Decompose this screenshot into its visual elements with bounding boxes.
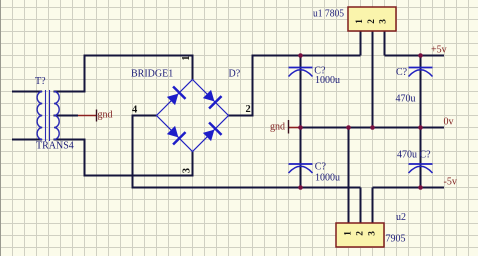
wire -5v output rail <box>373 187 445 189</box>
wire u1 pin3 <box>384 31 386 56</box>
svg-text:2: 2 <box>356 231 366 236</box>
junction +5v out rail / C3 <box>418 53 423 58</box>
svg-text:C?: C? <box>420 150 432 161</box>
svg-text:gnd: gnd <box>270 122 285 133</box>
wire bridge pin2 to +5v input rail <box>229 56 361 116</box>
svg-text:470u: 470u <box>396 94 416 105</box>
wire cap C1 branch <box>300 56 302 128</box>
transformer T? <box>37 90 59 141</box>
wire secondary bottom to bridge pin3 <box>54 140 193 176</box>
svg-text:TRANS4: TRANS4 <box>36 141 74 152</box>
svg-text:1: 1 <box>344 231 354 236</box>
svg-text:gnd: gnd <box>98 110 113 121</box>
svg-text:1000u: 1000u <box>315 173 340 184</box>
wire primary top <box>12 91 42 93</box>
bridge BRIDGE1 diamond <box>157 80 229 152</box>
svg-text:BRIDGE1: BRIDGE1 <box>131 69 173 80</box>
wire cap C3 branch <box>420 56 422 128</box>
svg-text:u1 7805: u1 7805 <box>313 9 344 20</box>
svg-text:+5v: +5v <box>431 45 447 56</box>
wire +5v output rail <box>385 55 445 57</box>
power port gnd (0v rail) <box>289 127 301 129</box>
wire secondary top to bridge pin1 <box>54 56 193 92</box>
wire cap C2 branch <box>300 128 302 188</box>
wire u2 pin3 <box>372 188 374 224</box>
wire center tap <box>54 115 79 117</box>
svg-text:1: 1 <box>355 19 365 24</box>
capacitor C2 (bottom-left 1000u) <box>289 164 313 173</box>
svg-text:1000u: 1000u <box>315 75 340 86</box>
diode D-d (pin3 to pin2 edge) <box>201 122 222 143</box>
left screen edge <box>0 0 2 256</box>
wire u1 pin1 <box>360 31 362 56</box>
diode D-a (pin4 to pin1 edge) <box>165 86 186 107</box>
junction dots <box>298 53 423 190</box>
diode D-b (pin1 to pin2 edge) <box>201 88 222 109</box>
wire 0v rail <box>299 127 444 129</box>
capacitor C3 (top-right 470u) <box>409 68 433 77</box>
regulator U1 7805 box <box>348 7 396 31</box>
svg-text:C?: C? <box>396 67 408 78</box>
svg-text:C?: C? <box>315 162 327 173</box>
wire u2 pin2 <box>360 188 362 224</box>
wire bridge pin4 to -5v input rail <box>133 116 361 188</box>
wire primary bottom <box>12 139 42 141</box>
junction -5v out rail / C4 <box>418 185 423 190</box>
svg-text:u2: u2 <box>396 212 406 223</box>
svg-text:2: 2 <box>246 104 251 115</box>
svg-text:3: 3 <box>379 19 389 24</box>
svg-text:4: 4 <box>132 105 138 116</box>
regulator U2 7905 box <box>336 223 384 247</box>
junction 0v rail / C3-C4 <box>418 125 423 130</box>
junction 0v rail / u1 pin2 <box>370 125 375 130</box>
junction 0v rail / C1-C2 <box>298 125 303 130</box>
svg-text:3: 3 <box>181 168 192 173</box>
svg-text:7905: 7905 <box>386 234 406 245</box>
wire u2 pin1 <box>348 128 350 224</box>
capacitor C1 (top-left 1000u) <box>289 68 313 77</box>
svg-text:2: 2 <box>367 19 377 24</box>
svg-text:3: 3 <box>368 231 378 236</box>
svg-text:T?: T? <box>35 76 46 87</box>
power port gnd (center tap) <box>78 115 96 117</box>
capacitor C4 (bottom-right 470u) <box>409 164 433 173</box>
diode D-c (pin4 to pin3 edge) <box>165 124 186 145</box>
junction +5v rail / C1 <box>298 53 303 58</box>
svg-text:470u: 470u <box>397 150 417 161</box>
junction -5v rail / C2 <box>298 185 303 190</box>
wire u1 pin2 <box>372 31 374 128</box>
junction 0v rail / u2 pin1 <box>346 125 351 130</box>
svg-text:D?: D? <box>229 69 241 80</box>
svg-text:0v: 0v <box>444 117 454 128</box>
svg-text:-5v: -5v <box>444 177 457 188</box>
svg-text:1: 1 <box>181 56 192 61</box>
wire cap C4 branch <box>420 128 422 188</box>
